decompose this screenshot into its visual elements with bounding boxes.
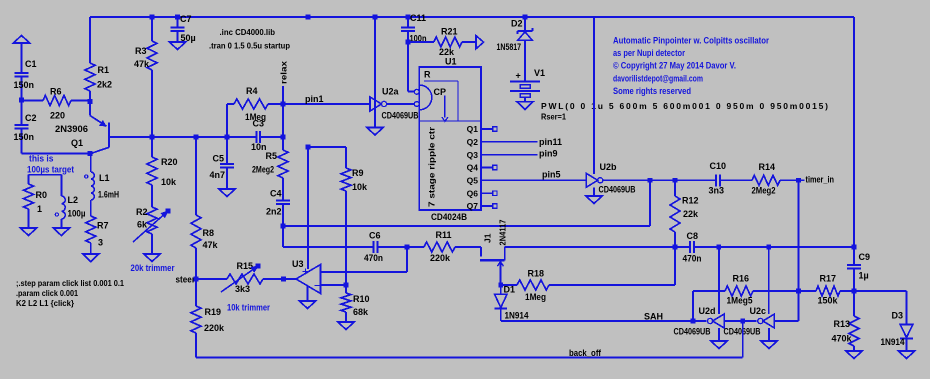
wire back_off	[196, 357, 743, 359]
wire U2b ground stem	[593, 187, 595, 196]
svg-text:Some rights reserved: Some rights reserved	[613, 86, 691, 96]
wire U2c ground	[768, 328, 770, 341]
inductor L1	[90, 154, 92, 173]
svg-text:V1: V1	[534, 68, 545, 78]
wire U3 V+ supply	[307, 147, 309, 269]
svg-text:R3: R3	[135, 46, 147, 56]
svg-text:100µ: 100µ	[68, 209, 86, 219]
svg-text:3k3: 3k3	[235, 284, 250, 294]
wire U3 ground stem	[307, 286, 309, 301]
svg-text:3n3: 3n3	[709, 186, 725, 196]
wire U2d in	[724, 320, 757, 322]
ground under C5	[219, 189, 235, 197]
wire timer_in vertical	[798, 180, 800, 321]
svg-text:R10: R10	[353, 294, 370, 304]
svg-text:U2c: U2c	[750, 306, 767, 316]
resistor R17	[816, 286, 840, 296]
wire U2a VDD from rail	[374, 17, 376, 128]
svg-text:davorilistdepot@gmail.com: davorilistdepot@gmail.com	[613, 73, 703, 83]
svg-text:4n7: 4n7	[210, 170, 226, 180]
svg-text:K2 L2 L1 {click}: K2 L2 L1 {click}	[16, 298, 75, 308]
svg-text:CD4069UB: CD4069UB	[599, 185, 636, 195]
svg-text:R19: R19	[205, 307, 222, 317]
svg-text:D2: D2	[511, 19, 523, 29]
svg-text:C2: C2	[25, 113, 37, 123]
svg-text:back_off: back_off	[569, 348, 602, 358]
transistor Q1 2N3906	[108, 123, 110, 148]
capacitor C3	[255, 131, 257, 143]
svg-text:Q2: Q2	[467, 137, 479, 147]
wire U2c in	[774, 320, 798, 322]
node rail junctions	[150, 15, 155, 20]
svg-text:22k: 22k	[439, 47, 455, 57]
svg-text:220k: 220k	[430, 253, 451, 263]
resistor R13	[853, 291, 855, 316]
svg-text:2k2: 2k2	[97, 80, 112, 90]
capacitor C11	[407, 17, 409, 28]
resistor R20	[151, 137, 153, 157]
svg-text:C1: C1	[25, 59, 37, 69]
resistor R16	[725, 286, 753, 296]
svg-text:R0: R0	[36, 190, 48, 200]
svg-text:2Meg2: 2Meg2	[752, 186, 776, 196]
svg-text:D1: D1	[504, 285, 516, 295]
trimmer arrow R2	[133, 211, 168, 242]
svg-text:C7: C7	[180, 14, 192, 24]
resistor R8	[195, 137, 197, 215]
wire opamp minus input	[321, 284, 347, 286]
svg-text:68k: 68k	[353, 307, 369, 317]
resistor R12	[674, 180, 676, 196]
wire R21 left lead	[408, 41, 434, 43]
svg-text:470n: 470n	[364, 253, 383, 263]
svg-text:U2a: U2a	[382, 87, 400, 97]
capacitor C2	[21, 100, 23, 125]
inverter U2b	[586, 173, 598, 187]
port flag arrow	[476, 36, 484, 49]
svg-text:2N3906: 2N3906	[55, 124, 88, 134]
ground flag below U2a	[367, 128, 383, 136]
svg-text:CD4069UB: CD4069UB	[382, 111, 419, 121]
svg-text:pin9: pin9	[539, 149, 558, 159]
resistor R19	[195, 279, 197, 306]
svg-text:7 stage ripple ctr: 7 stage ripple ctr	[428, 127, 437, 207]
svg-text:220k: 220k	[204, 323, 225, 333]
svg-text:100µs target: 100µs target	[27, 165, 74, 175]
capacitor C10	[715, 174, 717, 186]
wire base to main node	[109, 136, 152, 138]
svg-text:CP: CP	[434, 87, 447, 97]
wire R18 to drain net	[674, 247, 676, 285]
svg-text:;.step param click list 0.001: ;.step param click list 0.001 0.1	[16, 278, 124, 288]
wire pin1 to U2a	[283, 103, 370, 105]
svg-text:© Copyright 27 May 2014 Davor: © Copyright 27 May 2014 Davor V.	[613, 61, 736, 71]
inverter U2a	[370, 97, 382, 111]
svg-text:.inc CD4000.lib: .inc CD4000.lib	[220, 27, 276, 37]
svg-text:150n: 150n	[14, 132, 35, 142]
svg-text:C6: C6	[369, 231, 381, 241]
ground under U2c	[761, 341, 777, 349]
svg-text:L1: L1	[99, 173, 110, 183]
resistor R6	[22, 100, 44, 102]
resistor R3	[147, 41, 157, 70]
wire D3 to ground	[906, 338, 908, 351]
wire U2d VDD	[718, 247, 720, 314]
svg-text:Q7: Q7	[467, 201, 479, 211]
resistor R7	[90, 200, 92, 216]
svg-text:pin1: pin1	[305, 94, 324, 104]
capacitor C5	[226, 137, 228, 164]
svg-text:R4: R4	[246, 86, 258, 96]
wire right rail down	[853, 17, 855, 265]
wire R21 to port	[462, 41, 476, 43]
svg-text:CD4069UB: CD4069UB	[674, 327, 711, 337]
svg-text:relax: relax	[279, 61, 289, 84]
svg-text:1Meg: 1Meg	[525, 292, 546, 302]
svg-text:R9: R9	[352, 168, 364, 178]
resistor R4	[227, 103, 234, 105]
net label relax	[282, 86, 284, 104]
svg-text:R18: R18	[528, 269, 545, 279]
svg-text:C5: C5	[213, 154, 225, 164]
svg-text:R8: R8	[203, 228, 215, 238]
svg-text:220: 220	[50, 111, 65, 121]
wire J1 drain net	[505, 246, 691, 248]
svg-text:R1: R1	[98, 65, 110, 75]
resistor R0 target	[28, 175, 30, 184]
wire back_off drop	[742, 321, 744, 358]
svg-text:R14: R14	[759, 162, 776, 172]
ground under L2	[53, 228, 69, 236]
wire R1 top lead	[89, 17, 91, 63]
svg-text:R20: R20	[161, 157, 178, 167]
svg-text:1N5817: 1N5817	[497, 42, 522, 52]
svg-text:R: R	[424, 70, 431, 80]
ground under R0	[21, 228, 37, 236]
svg-text:U2d: U2d	[699, 306, 716, 316]
wire opamp plus input	[406, 247, 408, 272]
svg-text:C11: C11	[410, 13, 426, 23]
svg-text:3: 3	[98, 238, 103, 248]
svg-text:.param click 0.001: .param click 0.001	[16, 288, 78, 298]
wire V1 minus	[524, 97, 526, 102]
wire R3 bottom lead	[151, 70, 153, 137]
svg-text:Q6: Q6	[467, 188, 479, 198]
wire main node rail	[152, 136, 256, 138]
trimmer arrow R15	[221, 266, 258, 292]
pin Q4 stub	[481, 167, 493, 169]
svg-text:SAH: SAH	[644, 312, 663, 322]
svg-text:R11: R11	[436, 230, 452, 240]
capacitor C1	[15, 72, 29, 74]
resistor R10	[345, 285, 347, 293]
svg-text:R15: R15	[237, 261, 254, 271]
U1 CD4024B box	[419, 67, 481, 210]
svg-text:Q1: Q1	[467, 124, 479, 134]
svg-text:Rser=1: Rser=1	[541, 112, 566, 122]
wire R5 top	[282, 104, 284, 137]
ground under R13	[846, 351, 862, 359]
svg-text:this is: this is	[29, 154, 54, 164]
svg-text:Q3: Q3	[467, 150, 479, 160]
svg-text:47k: 47k	[203, 240, 219, 250]
svg-text:470k: 470k	[832, 334, 853, 344]
resistor R5	[278, 150, 288, 178]
wire J1 gate net	[283, 246, 374, 248]
inductor L2 target	[60, 175, 62, 196]
pin Q7 stub	[481, 205, 493, 207]
ground under D3	[899, 351, 915, 359]
svg-text:pin5: pin5	[542, 170, 561, 180]
pin Q3 wire pin9	[481, 154, 538, 156]
svg-text:R12: R12	[682, 196, 699, 206]
svg-text:pin11: pin11	[539, 137, 562, 147]
wire to D3	[854, 290, 907, 292]
wire L2 bottom	[60, 219, 62, 228]
capacitor C6	[373, 241, 375, 253]
ground under U2d	[711, 341, 727, 349]
voltage source V1 battery	[510, 81, 540, 83]
inverter U2d	[713, 314, 725, 328]
capacitor C4	[282, 178, 284, 200]
diode D1 1N914	[500, 285, 502, 294]
resistor R9	[341, 168, 351, 191]
svg-text:10k: 10k	[161, 177, 177, 187]
svg-text:C9: C9	[859, 252, 871, 262]
wire C2 to collector node	[22, 153, 91, 155]
svg-text:L2: L2	[68, 195, 79, 205]
wire C11 node to U1 R input	[407, 42, 409, 92]
wire U2d ground	[718, 328, 720, 341]
svg-text:1Meg: 1Meg	[245, 112, 266, 122]
wire D1 to SAH	[500, 308, 502, 321]
svg-text:1: 1	[37, 204, 42, 214]
svg-text:10k trimmer: 10k trimmer	[227, 303, 270, 313]
svg-text:R7: R7	[97, 221, 109, 231]
svg-text:C8: C8	[687, 231, 699, 241]
wire U2a out to CP	[387, 103, 415, 105]
svg-text:PWL(0 0 1u 5 600m 5 600m001 0: PWL(0 0 1u 5 600m 5 600m001 0 950m 0 950…	[541, 101, 828, 111]
svg-text:R17: R17	[820, 274, 837, 284]
svg-text:1Meg5: 1Meg5	[727, 296, 753, 306]
svg-text:+: +	[516, 71, 521, 81]
ground under R7	[83, 254, 99, 262]
wire R4 left drop	[226, 104, 228, 137]
resistor R21	[434, 37, 462, 47]
ground under R10	[338, 322, 354, 330]
svg-text:Automatic Pinpointer w. Colpit: Automatic Pinpointer w. Colpitts oscilla…	[613, 36, 769, 46]
svg-text:10k: 10k	[352, 182, 368, 192]
svg-text:.tran 0 1.5 0.5u startup: .tran 0 1.5 0.5u startup	[209, 41, 290, 51]
svg-text:R21: R21	[441, 27, 458, 37]
resistor R18	[501, 284, 517, 286]
wire target top	[29, 174, 62, 176]
svg-text:steer: steer	[176, 275, 196, 285]
svg-text:Q1: Q1	[71, 138, 83, 148]
svg-text:R13: R13	[834, 319, 851, 329]
svg-text:C10: C10	[710, 161, 727, 171]
svg-text:1µ: 1µ	[859, 271, 869, 281]
inverter U2c	[763, 314, 775, 328]
svg-text:U2b: U2b	[600, 162, 618, 172]
svg-text:10n: 10n	[251, 142, 267, 152]
ground under V1	[517, 102, 533, 110]
svg-text:22k: 22k	[683, 209, 699, 219]
svg-text:2n2: 2n2	[266, 207, 282, 217]
wire SAH net	[501, 320, 707, 322]
svg-text:C4: C4	[270, 189, 282, 199]
svg-text:CD4024B: CD4024B	[431, 212, 467, 222]
node J1 source	[499, 283, 504, 288]
resistor R15 trimmer	[196, 278, 227, 280]
svg-text:J1: J1	[483, 233, 493, 243]
diode D3 1N914	[900, 325, 913, 338]
op-amp U3	[296, 265, 321, 294]
pin Q2 wire pin11	[481, 141, 538, 143]
ground under R2	[144, 254, 160, 262]
svg-text:150n: 150n	[14, 80, 35, 90]
wire R1 bottom lead	[89, 91, 91, 102]
svg-text:1N914: 1N914	[505, 311, 529, 321]
wire C4 bottom to U2b out	[283, 225, 650, 227]
wire D2 to V1	[524, 41, 526, 82]
wire U3 output	[284, 278, 297, 280]
svg-text:R2: R2	[136, 207, 148, 217]
resistor R11	[424, 242, 455, 252]
pin Q6 stub	[481, 192, 493, 194]
wire U2b VDD from rail	[593, 17, 595, 174]
capacitor C8	[689, 241, 691, 253]
resistor R1	[85, 63, 95, 91]
svg-text:Q4: Q4	[467, 163, 479, 173]
wire top +5V rail	[90, 16, 854, 18]
capacitor C7	[177, 17, 179, 28]
svg-text:6k: 6k	[137, 220, 148, 230]
svg-text:timer_in: timer_in	[806, 175, 835, 185]
svg-text:R16: R16	[733, 274, 750, 284]
svg-text:1N914: 1N914	[881, 337, 905, 347]
diode D2 1N5817	[524, 17, 526, 31]
svg-text:470n: 470n	[683, 254, 702, 264]
resistor R2 trimmer	[147, 207, 157, 234]
ground under U2b	[586, 196, 602, 204]
wire U2b output	[603, 179, 716, 181]
wire R9 top branch	[308, 146, 346, 148]
svg-text:150k: 150k	[818, 296, 839, 306]
ground under U3	[300, 301, 316, 309]
ground under C7	[170, 42, 186, 50]
svg-text:Q5: Q5	[467, 176, 479, 186]
transistor J1 2N4117	[480, 247, 482, 257]
svg-text:47k: 47k	[134, 59, 150, 69]
capacitor C9	[847, 264, 861, 266]
svg-text:R6: R6	[50, 87, 62, 97]
svg-text:U1: U1	[445, 57, 457, 67]
svg-text:2N4117: 2N4117	[498, 219, 508, 245]
svg-text:2Meg2: 2Meg2	[252, 165, 274, 175]
resistor R14	[752, 175, 780, 185]
svg-text:D3: D3	[892, 311, 904, 321]
pin Q5 wire pin5	[481, 179, 586, 181]
svg-text:as per Nupi detector: as per Nupi detector	[613, 48, 685, 58]
pin Q1 stub	[481, 128, 493, 130]
wire R16 net	[693, 290, 725, 292]
wire U2c VDD	[768, 247, 770, 314]
wire R3 top lead	[151, 17, 153, 41]
ground flag above C1 (rotated)	[14, 35, 30, 43]
svg-text:R5: R5	[266, 151, 278, 161]
svg-text:20k trimmer: 20k trimmer	[131, 263, 175, 273]
svg-text:U3: U3	[292, 259, 304, 269]
svg-text:1.6mH: 1.6mH	[98, 190, 119, 200]
